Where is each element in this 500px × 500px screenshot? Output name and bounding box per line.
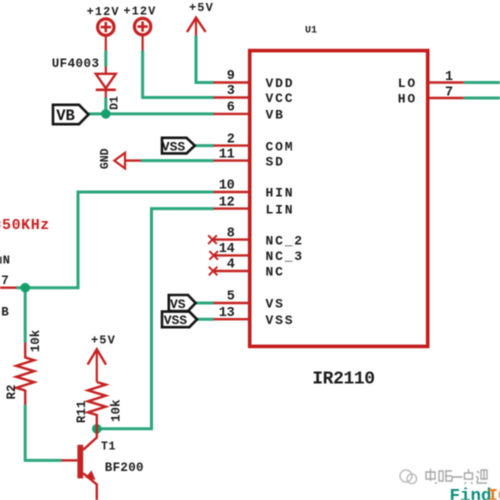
svg-text:VSS: VSS (162, 139, 186, 154)
svg-text:U1: U1 (305, 26, 317, 37)
svg-text:7: 7 (1, 274, 9, 288)
svg-text:LIN: LIN (266, 202, 295, 217)
svg-text:10k: 10k (110, 399, 124, 422)
svg-text:R2: R2 (5, 384, 19, 399)
svg-text:D1: D1 (109, 96, 122, 110)
svg-text:HIN: HIN (266, 186, 295, 201)
svg-text:7: 7 (445, 85, 453, 100)
svg-text:8: 8 (227, 226, 235, 241)
svg-text:NC_3: NC_3 (266, 249, 304, 264)
svg-text:NC_2: NC_2 (266, 233, 304, 248)
svg-text:VCC: VCC (266, 91, 295, 106)
svg-text:Find: Find (450, 487, 492, 500)
svg-text:12: 12 (219, 195, 235, 210)
svg-text:+5V: +5V (189, 1, 214, 15)
svg-text:T1: T1 (101, 441, 116, 454)
svg-text:VSS: VSS (164, 313, 188, 328)
svg-text:LO: LO (398, 76, 417, 91)
svg-text:5: 5 (227, 290, 235, 305)
svg-text:1: 1 (445, 70, 453, 85)
svg-text:+12V: +12V (123, 4, 156, 18)
svg-text:B: B (1, 306, 9, 320)
svg-text:R11: R11 (75, 401, 89, 424)
svg-text:3: 3 (227, 84, 235, 99)
svg-text:10: 10 (219, 179, 235, 194)
svg-text:VS: VS (266, 297, 285, 312)
svg-text:14: 14 (219, 242, 235, 257)
svg-text:10k: 10k (29, 329, 43, 352)
svg-text:13: 13 (219, 306, 235, 321)
svg-text:6: 6 (227, 101, 235, 116)
svg-text:≈50KHz: ≈50KHz (0, 217, 50, 234)
svg-text:SD: SD (266, 154, 285, 169)
svg-text:2: 2 (227, 132, 235, 147)
svg-text:VS: VS (170, 297, 186, 312)
svg-text:VB: VB (56, 107, 75, 125)
svg-text:COM: COM (266, 139, 295, 154)
svg-text:HO: HO (398, 92, 417, 107)
svg-text:4: 4 (227, 258, 235, 273)
svg-text:GND: GND (99, 148, 112, 169)
svg-text:9: 9 (227, 69, 235, 84)
svg-text:UF4003: UF4003 (52, 57, 100, 71)
svg-text:IR2110: IR2110 (312, 369, 374, 389)
svg-text:BF200: BF200 (105, 461, 144, 475)
svg-text:VDD: VDD (266, 76, 295, 91)
svg-text:+12V: +12V (87, 5, 120, 19)
svg-text:VSS: VSS (266, 313, 295, 328)
svg-text:N: N (3, 253, 10, 267)
svg-text:VB: VB (266, 108, 285, 123)
svg-text:11: 11 (219, 147, 235, 162)
svg-text:IC: IC (488, 487, 500, 500)
svg-text:+5V: +5V (91, 334, 116, 348)
svg-text:NC: NC (266, 265, 285, 280)
